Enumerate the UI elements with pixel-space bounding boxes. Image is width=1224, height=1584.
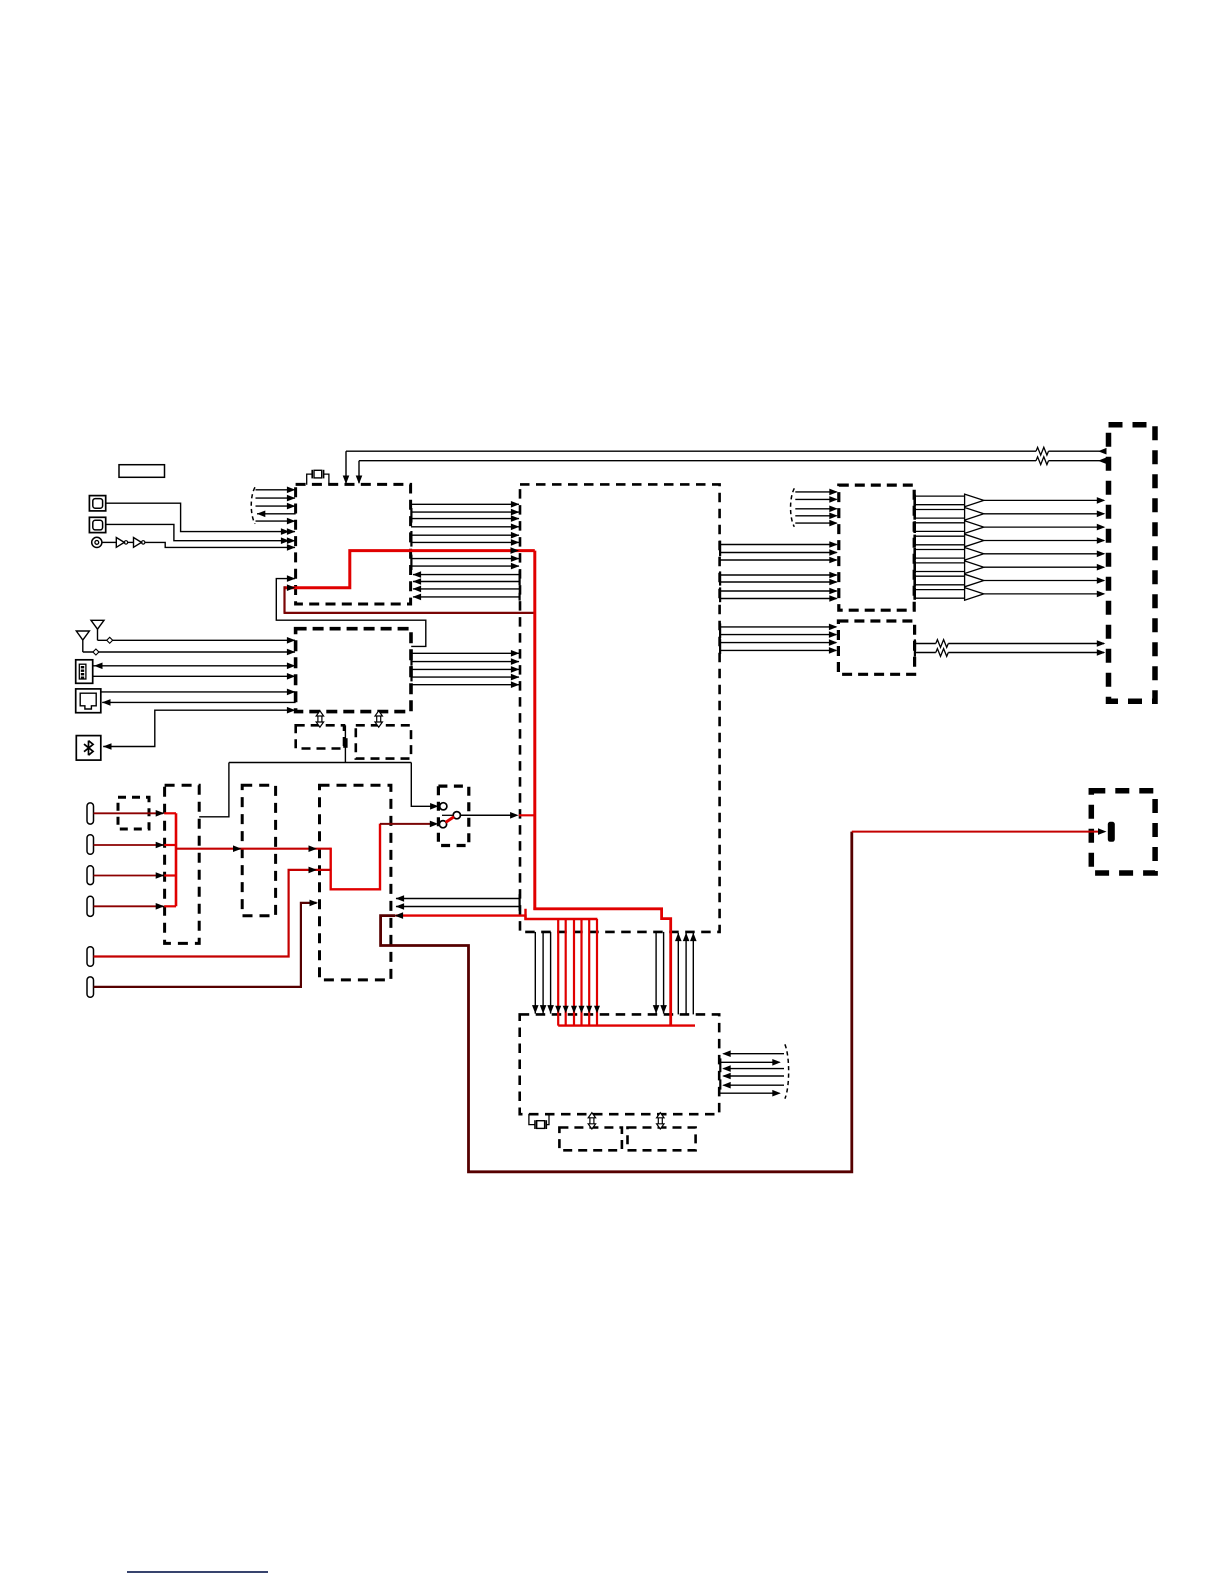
wire red comb line 5 to U6: [586, 919, 592, 1026]
wire switch output to red bus: [461, 812, 535, 819]
wire CAM2 to U1: [106, 524, 296, 544]
wire U1 to U3 signal 2: [411, 509, 519, 516]
dashed bracket node at U4 inputs: [791, 488, 795, 527]
bidirectional bus symbol T1: [316, 711, 323, 727]
fuse box D1: [118, 797, 149, 829]
U2 interface sub-box right: [356, 725, 411, 758]
power terminal pin P3: [87, 866, 94, 885]
wire red bus inside U6: [558, 1024, 695, 1026]
wire U3 to U1 signal 3: [413, 586, 520, 593]
wire U2 to U3 signal 1: [411, 650, 519, 657]
camera icon CAM2: [89, 517, 105, 532]
speaker channel 7 output: [914, 574, 1105, 587]
wire U1 input 4: [256, 518, 296, 525]
wire U5 antenna feed 1 with choke: [915, 640, 1106, 648]
AUX jack icon: [76, 689, 101, 713]
wire U3 to U4 audio 7: [720, 595, 838, 602]
wire U1 to U3 signal 6: [411, 539, 519, 546]
wire U6 to U3 signal 2: [683, 933, 690, 1015]
crystal X2 on U6 bottom edge: [529, 1114, 549, 1129]
relay box B: [242, 785, 275, 916]
wire U3 to U6 signal 5: [660, 932, 667, 1014]
U6 sub-box right: [628, 1128, 696, 1151]
bidirectional bus symbol T4: [657, 1113, 664, 1129]
wire U1 input 1: [256, 487, 296, 494]
wire red bus jog to box C feed: [395, 909, 598, 920]
power terminal pin P6: [87, 977, 94, 997]
wire U3 to U5 signal 2: [720, 631, 838, 638]
camera icon CAM1: [89, 496, 105, 511]
wire U5 antenna feed 2 with choke: [915, 649, 1106, 657]
wire ANT1 to U2: [98, 637, 296, 644]
wire U1 to U3 signal 1: [411, 501, 519, 508]
wire bracket to U4 input 2: [795, 496, 838, 503]
speaker channel 1 output: [914, 494, 1105, 507]
junction box C: [320, 785, 391, 980]
wire maroon battery line to J2: [381, 832, 852, 1172]
wire ACC power feed with fuse F2: [356, 457, 1107, 484]
wire U3 to U4 audio 6: [720, 588, 838, 595]
wire U3 to U4 audio 2: [720, 549, 838, 556]
wire P3 to box A: [94, 872, 177, 879]
main controller U3: [520, 484, 720, 932]
wire bracket to U6 signal 1: [722, 1050, 784, 1057]
wire U6 to U3 signal 3: [690, 933, 697, 1015]
bus tick marks U3 audio outputs: [719, 541, 721, 557]
speaker channel 8 output: [914, 588, 1105, 601]
wire U1 to U3 signal 5: [411, 532, 519, 539]
wire U3 to U1 signal 2: [413, 578, 520, 585]
wire red comb line 2 to U6: [563, 919, 569, 1026]
wire U1 to U3 signal 3: [411, 515, 519, 522]
wire U1 to U3 signal 4: [411, 524, 519, 531]
wire red comb line 4 to U6: [579, 919, 585, 1026]
wire USB to U2 (bidirectional): [93, 663, 296, 670]
wire ANT2 to U2: [83, 649, 296, 656]
switch SW1 pole line: [442, 814, 453, 816]
U6 sub-box left: [559, 1128, 622, 1151]
relay box A: [165, 785, 200, 943]
wire B+ power feed with fuse F1: [343, 447, 1107, 484]
wire U3 to U6 signal 4: [653, 932, 660, 1014]
bluetooth module icon: [76, 736, 101, 761]
wire U3 to U4 audio 5: [720, 579, 838, 586]
speaker channel 3 output: [914, 521, 1105, 534]
wire U2 to U3 signal 4: [411, 674, 519, 681]
wire bracket to U6 signal 3: [722, 1065, 784, 1072]
J2 terminal pin: [1108, 822, 1115, 842]
wire U2 sub-box split to box A and switch: [199, 763, 438, 817]
wire U3 to U4 audio 3: [720, 557, 838, 564]
bus tick marks U3 outputs to U1: [518, 571, 520, 586]
crystal X1 on U1 top edge: [307, 470, 329, 485]
wire U1 input 2: [256, 495, 296, 502]
wire dark red branch under U1: [284, 586, 535, 613]
antenna amplifier U5: [838, 621, 914, 674]
wire red comb line 6 to U6: [594, 919, 600, 1026]
switch SW1 lever: [446, 817, 454, 823]
power terminal pin P5: [87, 947, 94, 967]
wire bracket to U6 signal 4: [722, 1073, 784, 1080]
wire U2 to U3 signal 2: [411, 658, 519, 665]
wire P4 to box A: [94, 903, 177, 910]
wire U3 to box C signal 1: [396, 895, 520, 902]
wire bracket to U4 input 1: [795, 489, 838, 496]
dashed bracket node at U6 outputs: [785, 1044, 789, 1098]
wire box A output through box B to box C: [176, 845, 331, 852]
wire U1 to U3 signal 7: [411, 555, 519, 562]
wire U6 to bracket signal 6: [720, 1090, 781, 1097]
wire U3 to U5 signal 1: [720, 624, 838, 631]
wire bracket to U4 input 5: [795, 520, 838, 527]
bus tick marks U1 outputs: [410, 508, 412, 523]
switch SW1 contacts: [439, 803, 460, 828]
wire U3 to box C signal 2: [396, 903, 520, 910]
bus tick marks U2 outputs: [410, 650, 412, 666]
speaker channel 4 output: [914, 534, 1105, 547]
wire U3 to U6 signal 1: [532, 932, 539, 1014]
dashed bracket node at U1 inputs: [251, 487, 255, 524]
power amplifier U4: [839, 485, 914, 610]
wire bracket to U4 input 3: [795, 506, 838, 513]
wire U2 internal bus to sub-box: [343, 725, 347, 762]
wire U1 to U3 signal 8: [411, 563, 519, 570]
buffer amplifier stage 2: [128, 538, 145, 548]
USB port icon: [76, 660, 93, 684]
wire red bus inside box A: [175, 813, 178, 906]
wire tuner U2 to U1 link: [276, 575, 426, 646]
wire red feed into J2: [852, 828, 1107, 835]
wire bracket to U6 signal 5: [722, 1082, 784, 1089]
head unit U1 (display/control module): [296, 484, 411, 604]
navigation module U6: [520, 1014, 720, 1114]
speaker channel 6 output: [914, 561, 1105, 574]
power terminal pin P1: [87, 803, 94, 824]
wire U2 to U3 signal 3: [411, 666, 519, 673]
antenna ANT2: [76, 631, 89, 652]
wire red comb line 1 to U6: [555, 919, 561, 1026]
antenna ANT1: [91, 620, 104, 640]
wire P6 battery feed to box C: [94, 900, 319, 987]
wire bracket to U4 input 4: [795, 513, 838, 520]
wire U1 input 3: [256, 503, 296, 510]
wire RCA to U1: [145, 542, 296, 550]
wire U3 to U6 signal 2: [540, 932, 547, 1014]
tuner module U2: [296, 629, 411, 712]
wire U3 to U1 signal 4: [413, 594, 520, 601]
wire red comb line 3 to U6: [571, 919, 577, 1026]
buffer amplifier stage 1: [102, 538, 128, 548]
wire CAM1 to U1: [106, 503, 296, 535]
wire U3 to U1 signal 1: [413, 571, 520, 578]
bus tick mark U5 outputs: [914, 639, 916, 656]
wire U3 to U5 signal 4: [720, 647, 838, 654]
wire bluetooth to U2: [103, 707, 295, 750]
wire P2 to box A: [94, 842, 177, 849]
wire U2 to U3 signal 5: [411, 681, 519, 688]
wire P5 accessory feed to box C: [94, 867, 331, 957]
wire AUX to U2: [101, 689, 296, 696]
wire U6 to bracket signal 2: [720, 1059, 781, 1066]
bus tick marks U3 to U5: [719, 623, 721, 638]
speaker channel 2 output: [914, 508, 1105, 521]
wire U3 to U5 signal 3: [720, 639, 838, 646]
U2 interface sub-box left: [296, 725, 344, 748]
wire red bus to comb and U6: [533, 909, 670, 1026]
hyperlink underline: [127, 1571, 268, 1573]
wire U6 to U3 signal 1: [675, 933, 682, 1015]
bidirectional bus symbol T2: [375, 711, 382, 727]
vehicle harness connector J2: [1091, 791, 1155, 873]
wire U1 output to bracket node: [257, 511, 296, 518]
wire U2 to AUX: [102, 699, 296, 706]
label box: [119, 465, 165, 478]
wire red bus vertical main: [533, 551, 536, 910]
power terminal pin P2: [87, 835, 94, 855]
wire U3 to U4 audio 4: [720, 572, 838, 579]
wire USB to U2 data: [93, 673, 296, 680]
wire red power bus from box C entry to U1 and U3: [285, 547, 535, 591]
wire U3 to U4 audio 1: [720, 541, 838, 548]
wire P1 through fuse box D1 to box A: [94, 810, 177, 817]
bus tick mark U3 outputs to box C: [518, 894, 520, 911]
power terminal pin P4: [87, 896, 94, 916]
vehicle harness connector J1: [1109, 425, 1156, 702]
bidirectional bus symbol T3: [588, 1113, 595, 1129]
speaker channel 5 output: [914, 548, 1105, 561]
RCA jack icon: [92, 537, 102, 547]
bus tick marks U6 signals: [719, 1058, 721, 1072]
wire U3 to U6 signal 3: [547, 932, 554, 1014]
wire red routing inside box C to switch: [331, 821, 439, 890]
ignition switch SW1 box: [438, 786, 468, 845]
